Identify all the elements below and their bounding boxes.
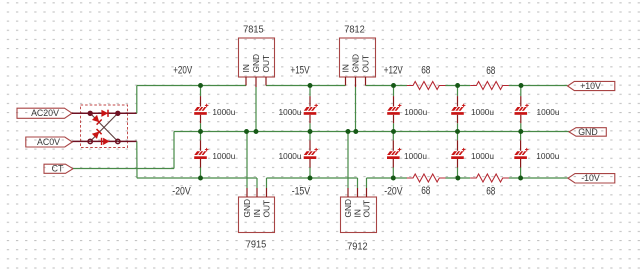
- node CT input tag: [44, 164, 73, 174]
- wire 7812 OUT pin: [365, 77, 367, 86]
- wire 7915 IN pin: [256, 188, 258, 197]
- svg-text:-20V: -20V: [172, 185, 191, 197]
- svg-text:1000u: 1000u: [537, 107, 560, 117]
- wire 7812 GND drop: [355, 87, 357, 132]
- junction: [353, 129, 358, 134]
- junction: [518, 129, 523, 134]
- wire bridge plus riser: [136, 86, 138, 114]
- op-amp U3 regulator 7915: [239, 197, 275, 251]
- wire -15V rail: [267, 177, 311, 179]
- op-amp U1 regulator 7815: [239, 25, 275, 77]
- junction: [308, 83, 313, 88]
- svg-text:7812: 7812: [344, 24, 365, 35]
- capacitor C6 1000u: [387, 132, 427, 179]
- svg-text:+12V: +12V: [384, 65, 403, 77]
- capacitor C3 1000u: [279, 86, 318, 132]
- wire bridge pin minus output: [118, 140, 137, 142]
- wire bridge pin AC20V: [72, 112, 90, 114]
- wire +20V rail: [137, 85, 246, 87]
- wire bridge bottom row: [90, 140, 118, 142]
- wire CT run: [73, 168, 174, 170]
- wire 7815 OUT pin: [265, 77, 267, 86]
- wire bridge top row: [90, 112, 118, 114]
- wire 7912 IN pin: [357, 188, 359, 197]
- wire bridge diagonal TL-BR: [90, 113, 118, 141]
- svg-text:CT: CT: [52, 164, 64, 174]
- wire bridge diagonal BL-TR: [90, 113, 118, 141]
- junction: [198, 176, 203, 181]
- svg-text:68: 68: [486, 65, 495, 77]
- svg-text:IN: IN: [341, 64, 351, 72]
- svg-text:1000u: 1000u: [471, 107, 494, 117]
- svg-text:-20V: -20V: [384, 185, 403, 197]
- wire 7912 OUT riser: [366, 178, 368, 188]
- capacitor C1 1000u: [194, 86, 236, 132]
- junction: [519, 83, 524, 88]
- node bridge plus junction: [115, 111, 120, 116]
- svg-text:1000u: 1000u: [212, 151, 235, 161]
- bridge rectifier B1 dashed outline: [81, 105, 128, 148]
- wire 7912 GND pin: [347, 188, 349, 197]
- diode D2 (bridge bottom): [102, 138, 110, 145]
- junction: [455, 129, 460, 134]
- wire +12V/+10V mid: [445, 85, 470, 87]
- wire 7915 OUT riser: [266, 178, 268, 188]
- svg-text:IN: IN: [252, 209, 262, 217]
- svg-text:AC20V: AC20V: [31, 108, 59, 118]
- junction: [254, 129, 259, 134]
- wire 7815 GND pin: [255, 77, 257, 87]
- junction: [455, 83, 460, 88]
- resistor R1 68: [407, 82, 446, 90]
- wire 7912 IN riser: [357, 178, 359, 188]
- junction: [244, 129, 249, 134]
- svg-text:1000u: 1000u: [404, 107, 427, 117]
- wire 7915 GND pin: [246, 188, 248, 197]
- svg-text:+10V: +10V: [580, 81, 601, 91]
- node bridge minus junction (open): [116, 139, 120, 143]
- wire 7815 IN pin: [245, 77, 247, 86]
- capacitor C9 1000u: [515, 86, 560, 132]
- capacitor C8 1000u: [451, 132, 494, 179]
- svg-text:68: 68: [421, 65, 430, 77]
- wire 7912 GND riser: [347, 132, 349, 189]
- svg-text:GND: GND: [351, 54, 361, 73]
- capacitor C4 1000u: [279, 132, 318, 179]
- svg-text:OUT: OUT: [262, 200, 272, 218]
- svg-text:GND: GND: [578, 127, 598, 137]
- capacitor C2 1000u: [194, 132, 236, 179]
- wire 7915 OUT pin: [266, 188, 268, 197]
- svg-text:AC0V: AC0V: [37, 137, 60, 147]
- svg-text:-15V: -15V: [292, 185, 311, 197]
- node AC20V input tag: [17, 108, 72, 119]
- wire 7812 GND pin: [355, 77, 357, 87]
- svg-text:68: 68: [421, 185, 430, 197]
- node -10V output tag: [568, 173, 615, 183]
- wire -15V rail b: [310, 177, 358, 179]
- wire 7815 GND drop: [255, 87, 257, 132]
- node bridge AC1 junction: [88, 111, 93, 116]
- svg-text:-10V: -10V: [581, 173, 600, 183]
- node bridge AC2 junction (open): [88, 139, 92, 143]
- svg-text:OUT: OUT: [361, 55, 371, 73]
- node AC0V input tag: [26, 137, 73, 147]
- svg-text:1000u: 1000u: [279, 107, 302, 117]
- wire 7915 GND riser: [246, 132, 248, 189]
- junction: [198, 83, 203, 88]
- wire to +10V tag: [509, 85, 568, 87]
- op-amp U4 regulator 7912: [341, 197, 377, 253]
- op-amp U2 regulator 7812: [340, 24, 376, 77]
- wire 7915 IN riser: [256, 178, 258, 188]
- capacitor C5 1000u: [387, 86, 427, 132]
- junction: [391, 129, 396, 134]
- resistor R2 68: [470, 82, 509, 90]
- svg-text:1000u: 1000u: [404, 151, 427, 161]
- svg-text:68: 68: [486, 186, 495, 198]
- wire CT riser: [173, 132, 175, 169]
- wire 7812 IN pin: [345, 77, 347, 86]
- diode D3 (bridge upper diagonal): [92, 115, 102, 125]
- svg-text:1000u: 1000u: [471, 151, 494, 161]
- svg-text:GND: GND: [242, 199, 252, 218]
- wire 7912 OUT pin: [366, 188, 368, 197]
- node +10V output tag: [568, 81, 615, 91]
- junction: [391, 176, 396, 181]
- svg-text:+20V: +20V: [173, 65, 192, 77]
- diode D4 (bridge lower diagonal): [92, 129, 102, 139]
- resistor R3 68: [407, 174, 446, 182]
- capacitor C7 1000u: [451, 86, 494, 132]
- resistor R4 68: [470, 174, 509, 182]
- diode D1 (bridge top): [101, 110, 108, 117]
- wire -20V rail: [137, 177, 257, 179]
- svg-text:IN: IN: [241, 64, 251, 72]
- junction: [346, 129, 351, 134]
- node GND output tag: [569, 127, 606, 137]
- junction: [308, 176, 313, 181]
- wire to -10V tag: [509, 177, 568, 179]
- svg-text:1000u: 1000u: [279, 151, 302, 161]
- svg-text:7915: 7915: [246, 240, 267, 251]
- junction: [391, 83, 396, 88]
- svg-text:7815: 7815: [243, 25, 264, 36]
- junction: [455, 176, 460, 181]
- wire +15V rail: [266, 85, 346, 87]
- svg-text:1000u: 1000u: [212, 107, 235, 117]
- svg-text:+15V: +15V: [291, 65, 310, 77]
- svg-text:7912: 7912: [347, 242, 368, 253]
- svg-text:GND: GND: [343, 199, 353, 218]
- svg-text:1000u: 1000u: [536, 151, 559, 161]
- wire bridge minus drop: [136, 141, 138, 178]
- wire +12V net: [366, 85, 408, 87]
- junction: [198, 129, 203, 134]
- wire bridge pin AC0V: [72, 140, 90, 142]
- junction: [308, 129, 313, 134]
- wire -20V out net: [367, 177, 408, 179]
- wire bridge pin plus output: [118, 112, 137, 114]
- junction: [518, 176, 523, 181]
- capacitor C10 1000u: [514, 132, 559, 179]
- svg-text:GND: GND: [251, 54, 261, 73]
- svg-text:OUT: OUT: [261, 55, 271, 73]
- wire GND rail: [174, 131, 569, 133]
- wire bottom mid: [445, 177, 470, 179]
- svg-text:OUT: OUT: [362, 200, 372, 218]
